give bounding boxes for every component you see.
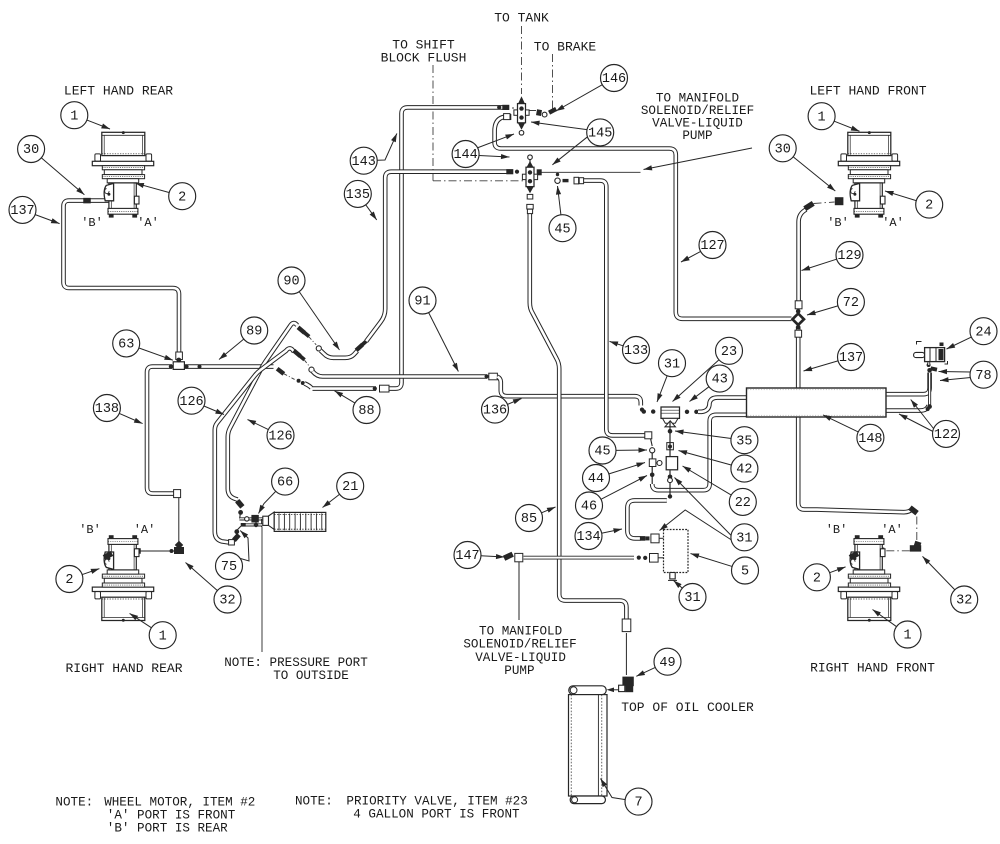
priority valve 23 body [661, 407, 680, 427]
balloon 126 first [204, 406, 224, 415]
svg-text:30: 30 [23, 143, 39, 158]
svg-text:75: 75 [221, 560, 237, 575]
nipples after bend B [292, 349, 301, 358]
svg-text:5: 5 [741, 565, 749, 580]
balloon 2 (RH front) [829, 567, 845, 573]
balloon 148 [823, 415, 859, 432]
hose 90 nipples after bend A [297, 326, 306, 335]
balloon 24 [947, 337, 972, 349]
valve V1 left port fittings [502, 105, 509, 110]
centerline fitting32 to RH front A port [884, 550, 910, 552]
svg-text:91: 91 [414, 295, 430, 310]
riser tube to brake valve 24 [928, 373, 931, 407]
svg-text:LEFT HAND FRONT: LEFT HAND FRONT [809, 84, 926, 99]
balloon 32 left [186, 563, 218, 591]
node TO BRAKE centerline [552, 54, 554, 109]
hose 147 (to solenoid valve block) [524, 556, 635, 560]
balloon 31 lower-right with two leaders [660, 510, 732, 540]
valve V1 lower left port fitting [506, 114, 511, 120]
svg-text:145: 145 [588, 126, 612, 141]
svg-text:PRIORITY VALVE, ITEM #23: PRIORITY VALVE, ITEM #23 [346, 795, 527, 809]
hose 85 (valve V2 bottom, long center drop) [530, 213, 627, 619]
node TO SHIFT BLOCK FLUSH centerline vertical [432, 65, 434, 181]
hose 88 left elbow piece [305, 383, 312, 388]
svg-text:NOTE: PRESSURE PORT: NOTE: PRESSURE PORT [224, 656, 368, 670]
fitting 49 at oil cooler [622, 677, 633, 687]
priority valve right fittings [685, 410, 689, 414]
union ring on hose 90 [316, 346, 321, 351]
leader line to pressure-port note [261, 527, 263, 652]
svg-text:′A′ PORT IS FRONT: ′A′ PORT IS FRONT [107, 809, 236, 823]
balloon 90 [299, 291, 339, 350]
hose 90 right nipples [355, 343, 364, 352]
balloon 78 with two leaders [939, 371, 971, 374]
balloon 31 upper [657, 376, 667, 402]
svg-text:45: 45 [594, 445, 610, 460]
priority valve left fittings [642, 409, 646, 413]
balloon 44 [609, 463, 645, 475]
balloon 143 [377, 133, 397, 160]
svg-text:TOP OF OIL COOLER: TOP OF OIL COOLER [621, 700, 754, 715]
svg-text:′A′: ′A′ [137, 216, 159, 230]
hose 91 (bend to S-jog) [313, 372, 487, 377]
svg-text:23: 23 [721, 345, 737, 360]
balloon 2 (LH front) [885, 191, 917, 201]
svg-text:TO TANK: TO TANK [494, 11, 549, 26]
balloon 1 (LH rear) [87, 120, 110, 129]
union ring on hose 91 [309, 367, 314, 372]
svg-text:138: 138 [95, 402, 119, 417]
nipple at RH front hose end [908, 505, 918, 515]
balloon 134 [601, 529, 622, 533]
union coupling hose 91/136 [489, 373, 498, 380]
balloon 21 [323, 494, 340, 507]
svg-text:VALVE-LIQUID: VALVE-LIQUID [475, 651, 566, 665]
svg-text:4 GALLON PORT IS FRONT: 4 GALLON PORT IS FRONT [353, 808, 520, 822]
svg-text:30: 30 [775, 142, 791, 157]
junction 63 tee fitting [169, 358, 189, 370]
valve V1 right port centerline [528, 110, 541, 112]
svg-text:137: 137 [839, 351, 863, 366]
svg-text:90: 90 [283, 275, 299, 290]
fittings under brake valve 24 [927, 363, 931, 367]
balloon 85 [541, 507, 555, 513]
hose 143 (valve V1 to hose 88 elbow) [389, 107, 505, 388]
valve V2 left port fittings [506, 169, 513, 174]
svg-text:22: 22 [735, 496, 751, 511]
svg-text:42: 42 [736, 463, 752, 478]
svg-text:78: 78 [975, 369, 991, 384]
centerline hose129 to LH front B port [814, 202, 835, 204]
svg-text:TO MANIFOLD: TO MANIFOLD [479, 625, 562, 639]
balloon 137 (left) [35, 214, 60, 223]
balloon 1 (LH front) [834, 121, 860, 131]
svg-text:136: 136 [483, 404, 507, 419]
svg-text:LEFT HAND REAR: LEFT HAND REAR [64, 84, 173, 99]
wheel motor 2 left hand rear [92, 131, 153, 217]
balloon 7 [601, 779, 626, 800]
svg-text:RIGHT HAND REAR: RIGHT HAND REAR [65, 661, 182, 676]
valve V1 left port centerline [481, 107, 514, 109]
oil cooler top tank [569, 686, 606, 695]
RH front B-port nipple [849, 551, 860, 560]
svg-text:129: 129 [837, 249, 861, 264]
hose 24 riser upper (plate right to brake valve) [886, 373, 930, 395]
hose 138 (junction 63 down to RH rear) [147, 367, 174, 494]
balloon 32 right [923, 556, 956, 590]
svg-text:126: 126 [179, 395, 203, 410]
tee coupling into solenoid block [650, 554, 659, 563]
hose 134 end fittings at solenoid block [640, 536, 645, 541]
hose 137 left (LH rear B-port to junction 63) [64, 201, 180, 358]
balloon 45 top [558, 186, 561, 215]
RH rear B-port nipple [103, 551, 114, 560]
RH rear A-port line [136, 550, 174, 552]
hose 147 left nipple and tee [503, 552, 514, 561]
node TO SHIFT BLOCK FLUSH centerline horizontal [433, 180, 523, 182]
balloon 147 [481, 556, 505, 557]
svg-text:WHEEL MOTOR, ITEM #2: WHEEL MOTOR, ITEM #2 [104, 796, 255, 810]
svg-text:32: 32 [219, 594, 235, 609]
hose 122 lower (plate right to riser) [886, 405, 929, 410]
balloon 5 [691, 554, 733, 567]
balloon 135 [366, 205, 377, 220]
balloon 31 below block [674, 581, 683, 589]
junction 72 cross fitting [791, 309, 806, 330]
svg-text:7: 7 [634, 796, 642, 811]
manifold plate 148 [747, 388, 887, 417]
union centerline 89-88 [284, 374, 296, 380]
balloon 145 with two leaders [531, 122, 588, 130]
valve V1 (to tank / to brake manifold) [514, 96, 529, 135]
svg-text:44: 44 [588, 472, 604, 487]
fitting chain from hose 126A to filter [235, 499, 244, 509]
balloon 63 [139, 348, 173, 360]
hose from priority valve to plate 148 [698, 398, 747, 412]
svg-text:2: 2 [65, 573, 73, 588]
svg-text:35: 35 [736, 434, 752, 449]
svg-text:1: 1 [70, 109, 78, 124]
svg-text:SOLENOID/RELIEF: SOLENOID/RELIEF [463, 638, 576, 652]
orifice cone [269, 512, 275, 529]
balloon 35 [675, 431, 731, 438]
svg-text:TO BRAKE: TO BRAKE [534, 40, 597, 55]
balloon 133 [610, 341, 624, 346]
balloon 30 (LH rear) [41, 158, 84, 195]
svg-text:1: 1 [159, 629, 167, 644]
valve V2 (shift block manifold) [522, 155, 537, 193]
hose from fitting column to plate (y490 riser) [652, 415, 746, 490]
svg-text:46: 46 [581, 500, 597, 515]
svg-text:85: 85 [521, 512, 537, 527]
balloon 122 with two leaders [911, 400, 934, 429]
svg-text:NOTE:: NOTE: [55, 796, 93, 810]
balloon 66 [259, 491, 276, 513]
svg-text:2: 2 [925, 199, 933, 214]
oil cooler bottom tank [570, 796, 605, 804]
balloon 22 [683, 466, 732, 495]
left fitting column (x652) [645, 432, 652, 439]
balloon 91 [428, 312, 458, 371]
svg-text:134: 134 [576, 530, 600, 545]
brake valve 24 [914, 342, 948, 365]
svg-text:′B′ PORT IS REAR: ′B′ PORT IS REAR [107, 822, 228, 836]
hose 126 A (upper, from bend to filter) [228, 323, 297, 500]
svg-text:127: 127 [700, 239, 724, 254]
valve V2 right port fittings [555, 178, 560, 183]
tee fitting 66 [251, 515, 258, 523]
balloon 2 (RH rear) [82, 569, 100, 575]
LH front B-port fitting [835, 197, 844, 205]
svg-text:63: 63 [118, 337, 134, 352]
balloon 137 right [804, 361, 839, 371]
balloon 127 [681, 251, 701, 262]
svg-text:′B′: ′B′ [79, 523, 101, 537]
svg-text:′A′: ′A′ [882, 216, 904, 230]
LH rear B-port fitting [83, 198, 91, 204]
valve V1 right port fittings [536, 109, 542, 116]
svg-text:135: 135 [346, 188, 370, 203]
svg-text:′A′: ′A′ [134, 523, 156, 537]
svg-text:122: 122 [934, 428, 958, 443]
oil cooler body 7 [569, 695, 608, 796]
wheel motor 2 right hand rear [92, 535, 153, 621]
balloon 89 [219, 339, 244, 360]
filter inlet lower rail [241, 523, 263, 526]
balloon 30 (LH front) [793, 157, 835, 191]
balloon 49 [636, 667, 655, 676]
svg-text:144: 144 [453, 148, 477, 163]
centerline to fitting 32 right [916, 517, 918, 546]
svg-text:88: 88 [358, 404, 374, 419]
balloon 2 (LH rear) [135, 183, 169, 192]
svg-text:32: 32 [956, 594, 972, 609]
hose 135 (dip up to valve V2) [366, 172, 510, 342]
balloon 1 (RH rear) [130, 613, 152, 628]
svg-text:2: 2 [178, 190, 186, 205]
svg-text:43: 43 [712, 373, 728, 388]
svg-text:TO OUTSIDE: TO OUTSIDE [273, 669, 349, 683]
svg-text:1: 1 [818, 110, 826, 125]
svg-text:21: 21 [342, 480, 358, 495]
line valve V2 to manifold solenoid [541, 171, 641, 173]
balloon 146 [556, 85, 603, 111]
svg-text:126: 126 [268, 429, 292, 444]
svg-text:72: 72 [843, 296, 859, 311]
svg-text:′B′: ′B′ [81, 216, 103, 230]
balloon 126 second [248, 420, 269, 430]
balloon 1 (RH front) [873, 610, 897, 627]
svg-text:148: 148 [858, 432, 882, 447]
nipple at end of hose 89 [276, 367, 285, 376]
balloon 43 [690, 387, 710, 402]
valve V2 bottom stem fittings [527, 194, 533, 199]
union coupling hose88/143 [380, 385, 390, 392]
svg-text:133: 133 [624, 344, 648, 359]
balloon 23 [673, 360, 720, 402]
line from fitting 49 into cooler [610, 689, 619, 691]
coupling for hose 127 at valve V1 [504, 114, 510, 120]
svg-text:143: 143 [352, 155, 376, 170]
svg-text:′B′: ′B′ [826, 523, 848, 537]
hose 127 (valve V1 to junction 72) [495, 117, 792, 319]
wheel motor 2 right hand front [838, 535, 899, 621]
fitting 32 right (RH front A-port elbow) [910, 545, 921, 551]
svg-text:PUMP: PUMP [504, 664, 534, 678]
svg-text:1: 1 [903, 629, 911, 644]
svg-text:147: 147 [455, 549, 479, 564]
svg-text:146: 146 [602, 72, 626, 87]
svg-text:NOTE:: NOTE: [295, 795, 333, 809]
svg-text:31: 31 [736, 531, 752, 546]
svg-text:31: 31 [684, 591, 700, 606]
svg-text:66: 66 [277, 476, 293, 491]
hose 133 (valve V2 right, down and to fitting column) [584, 181, 645, 436]
solenoid valve block 5 [664, 530, 689, 581]
nipple at top of hose 129 [803, 201, 814, 211]
filter inlet upper rail [239, 517, 268, 520]
balloon 88 [335, 391, 356, 403]
wheel motor 2 left hand front [838, 131, 899, 217]
balloon 138 [119, 413, 143, 423]
coupling below junction 72 [795, 330, 802, 337]
svg-text:137: 137 [10, 204, 34, 219]
tube from hose138 to RH rear tee [178, 498, 180, 546]
hose 126 B (lower, from bend to filter) [215, 348, 294, 542]
svg-text:31: 31 [664, 357, 680, 372]
svg-text:45: 45 [554, 222, 570, 237]
hose 137 right upper (junction 72 down to plate 148) [796, 327, 801, 390]
hose 137 right lower (plate 148 to RH front) [798, 417, 912, 513]
balloon 42 [679, 451, 732, 466]
orifice neck [263, 516, 269, 525]
filter cartridge 21 [274, 512, 326, 531]
balloon 75 [240, 531, 249, 562]
svg-text:2: 2 [813, 571, 821, 586]
union coupling on hose 129 [795, 301, 802, 309]
leader to manifold text [644, 148, 753, 170]
union coupling on hose 137 [176, 352, 183, 360]
svg-text:RIGHT HAND FRONT: RIGHT HAND FRONT [810, 661, 935, 676]
balloon 46 [601, 476, 647, 500]
hose 85 end coupling [622, 619, 631, 632]
svg-text:BLOCK FLUSH: BLOCK FLUSH [381, 51, 467, 66]
balloon 136 [507, 399, 521, 405]
svg-text:89: 89 [246, 325, 262, 340]
node TO TANK centerline [521, 26, 523, 94]
fitting column below priority valve [668, 429, 673, 434]
hose 129 (LH front B-port down to junction 72) [799, 210, 807, 301]
hose 136 (S-jog to priority valve) [497, 377, 640, 406]
svg-text:′A′: ′A′ [881, 523, 903, 537]
balloon 129 [802, 259, 837, 270]
balloon 72 [807, 306, 838, 315]
svg-text:′B′: ′B′ [827, 216, 849, 230]
svg-text:49: 49 [659, 656, 675, 671]
hose 134 loop [627, 500, 666, 538]
fitting chain from hose 126B to filter [229, 540, 235, 545]
tee fitting 32 at RH rear [174, 547, 184, 554]
union coupling hose 138 lower end [174, 490, 181, 498]
balloon 144 with two leaders [477, 134, 514, 148]
hose 90 dip section [321, 351, 358, 358]
hose 88 horizontal [313, 386, 377, 391]
hose 89 (junction 63 to union) [184, 364, 274, 369]
svg-text:PUMP: PUMP [682, 129, 712, 143]
balloon 45 middle [616, 449, 647, 451]
svg-text:24: 24 [975, 325, 991, 340]
